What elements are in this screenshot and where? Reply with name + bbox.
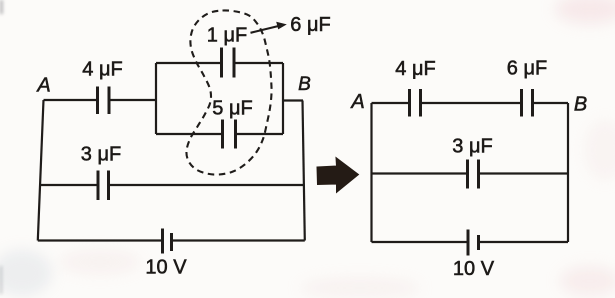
svg-text:4 μF: 4 μF	[395, 58, 435, 80]
svg-text:A: A	[36, 75, 50, 97]
svg-text:1 μF: 1 μF	[207, 25, 247, 47]
svg-text:10 V: 10 V	[453, 258, 495, 280]
svg-text:6 μF: 6 μF	[290, 14, 330, 36]
svg-text:B: B	[574, 94, 587, 116]
svg-text:3 μF: 3 μF	[452, 136, 492, 158]
svg-text:B: B	[298, 74, 311, 95]
svg-text:5 μF: 5 μF	[212, 98, 252, 120]
svg-text:4 μF: 4 μF	[82, 59, 122, 81]
svg-text:6 μF: 6 μF	[507, 58, 547, 80]
svg-text:10 V: 10 V	[145, 257, 187, 279]
svg-text:3 μF: 3 μF	[81, 144, 121, 166]
svg-text:A: A	[350, 91, 364, 113]
